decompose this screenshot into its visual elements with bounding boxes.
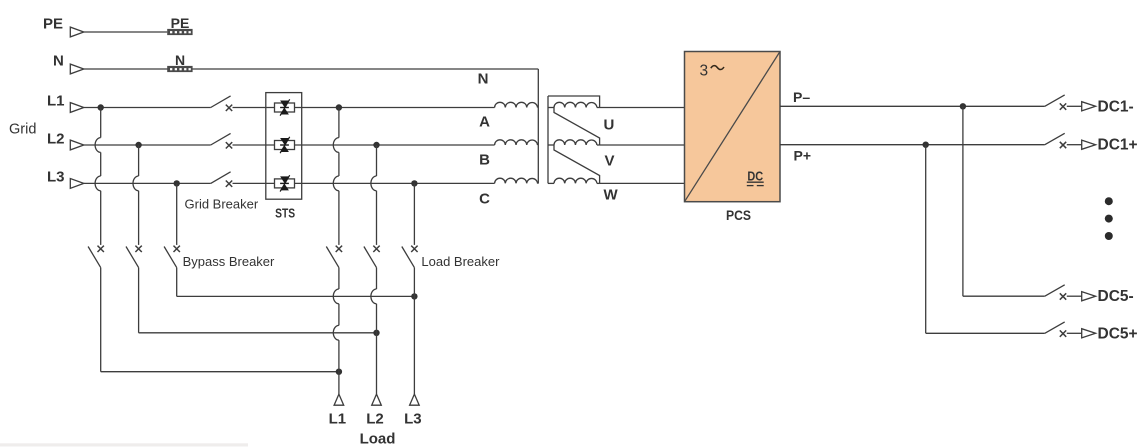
wire L2 from grid breaker to STS [233,144,275,146]
svg-text:DC5+: DC5+ [1098,325,1138,342]
svg-text:Grid Breaker: Grid Breaker [185,197,259,212]
load breaker pole 3 [402,246,418,268]
wire hop load1 over bypass run 3 [333,289,339,304]
PCS diagonal [685,52,781,202]
svg-text:P+: P+ [794,147,812,163]
wire load line 3 lower [413,268,415,395]
wire secondary bar [547,96,549,183]
wire hop load1 over B [333,138,339,153]
node P- branch [960,103,966,109]
wire secondary top link [548,96,600,108]
STS thyristor pair phase 1 [280,99,290,115]
wire hop load2 over bypass run 3 [371,289,377,304]
svg-text:DC: DC [747,168,763,183]
inductor secondary W [554,178,597,183]
bypass breaker pole 1 [88,246,104,268]
wire bypass drop from L3 [176,183,178,245]
wire hop L2-drop over L3 [133,176,139,191]
DC breaker and output DC1- [1045,95,1096,111]
input terminal triangle N [70,64,84,74]
svg-text:DC1+: DC1+ [1098,137,1138,154]
svg-text:Grid: Grid [9,122,36,138]
svg-text:L3: L3 [47,169,65,186]
DC underline solid [747,181,764,183]
wire L1 from STS to transformer coil [295,107,495,109]
wire P+ branch to DC5+ [926,332,1045,334]
wire hop L1-drop over L2 [95,138,101,153]
wire hop L1-drop over L3 [95,176,101,191]
input terminal triangle L2 [70,140,84,150]
load output triangle L2 [372,394,382,405]
svg-text:PE: PE [171,15,190,31]
wire P+ branch vertical [925,145,927,334]
inductor secondary U [554,102,597,107]
inductor primary A [495,102,538,107]
svg-text:P–: P– [793,89,810,105]
svg-text:U: U [604,116,615,133]
ellipsis dots [1105,197,1113,205]
svg-text:DC1-: DC1- [1098,98,1134,115]
load breaker pole 1 [326,246,342,268]
scan artifact bar [0,443,248,446]
wire zigzag link V-W [554,145,600,183]
wire L1 from input to grid breaker [84,107,211,109]
PCS converter box [685,52,781,202]
DC underline dashed [747,185,754,187]
load output triangle L3 [410,394,420,405]
svg-text:V: V [605,153,615,170]
node bypass-load L1 [336,369,342,375]
wire L3 from STS to transformer coil [295,182,495,184]
DC breaker and output DC1+ [1045,133,1096,149]
svg-text:PCS: PCS [726,208,751,223]
wire bypass run 1 to load L1 [101,371,339,373]
svg-text:L1: L1 [329,410,347,427]
svg-text:3: 3 [700,63,709,80]
wire bypass run 3 to load L3 [177,295,415,297]
wire bypass run 2 to load L2 [139,332,377,334]
svg-text:STS: STS [275,206,295,221]
svg-text:DC5-: DC5- [1098,288,1134,305]
wire load line 1 lower [338,268,340,289]
terminal block N [167,66,192,72]
STS thyristor module phase 2 box [275,141,295,150]
STS thyristor module phase 1 box [275,103,295,112]
svg-text:L2: L2 [47,131,65,148]
grid breaker pole L3 [211,172,233,187]
node bypass-load L3 [411,293,417,299]
svg-text:Load Breaker: Load Breaker [421,254,500,269]
STS thyristor pair phase 2 [280,137,290,153]
wire L2 from STS to transformer coil [295,144,495,146]
svg-text:Load: Load [360,431,396,447]
wire P- branch to DC5- [963,295,1045,297]
input terminal triangle PE [70,27,84,37]
svg-text:L2: L2 [366,410,384,427]
node L1 grid tap [98,104,104,110]
wire L3 from grid breaker to STS [233,182,275,184]
wire PE [84,31,167,33]
wire zigzag link U-V [554,108,600,146]
bypass breaker pole 2 [126,246,142,268]
load breaker pole 2 [364,246,380,268]
node L3 grid tap [174,180,180,186]
wire P+ [780,144,1045,146]
node L2 grid tap [135,142,141,148]
wire primary star bar [537,69,539,183]
wire U [600,107,685,109]
svg-text:C: C [479,190,490,207]
STS thyristor module phase 3 box [275,179,295,188]
DC breaker and output DC5+ [1045,322,1096,338]
terminal block PE [167,29,192,35]
wire bypass drop from L2 [138,145,140,176]
STS thyristor pair phase 3 [280,175,290,191]
grid breaker pole L2 [211,133,233,148]
wire P- branch vertical [962,106,964,296]
input terminal triangle L3 [70,179,84,189]
wire hop load2 over C [371,176,377,191]
wire load line 2 lower [376,268,378,289]
wire load line 2 [376,145,378,176]
wire W [600,182,685,184]
svg-text:L1: L1 [47,93,65,110]
wire P- [780,105,1045,107]
wire V [600,144,685,146]
wire load line 1 [338,108,340,138]
wire L3 from input to grid breaker [84,182,211,184]
node load tap A [336,104,342,110]
node load tap B [373,142,379,148]
node P+ branch [923,142,929,148]
svg-text:B: B [479,151,490,168]
svg-text:W: W [604,187,619,204]
wire hop load1 over C [333,176,339,191]
inductor primary B [495,140,538,145]
load output triangle L1 [334,394,344,405]
bypass breaker pole 3 [164,246,180,268]
wire L2 from input to grid breaker [84,144,211,146]
wire N [84,68,539,70]
svg-text:A: A [479,114,490,131]
wire bypass drop from L1 [100,108,102,138]
wire bypass drop 1 lower [100,268,102,372]
wire hop load1 over bypass run 2 [333,325,339,340]
inductor secondary V [554,140,597,145]
node load tap C [411,180,417,186]
wire L1 from grid breaker to STS [233,107,275,109]
svg-text:N: N [175,52,185,68]
wire bypass drop 3 lower [176,268,178,297]
inductor primary C [495,178,538,183]
wire load line 3 [413,183,415,245]
svg-text:N: N [478,70,489,87]
grid breaker pole L1 [211,96,233,111]
wire bypass drop 2 lower [138,268,140,333]
node bypass-load L2 [373,330,379,336]
input terminal triangle L1 [70,103,84,113]
svg-text:L3: L3 [404,410,422,427]
svg-text:N: N [53,53,64,70]
DC breaker and output DC5- [1045,285,1096,301]
svg-text:Bypass Breaker: Bypass Breaker [183,254,275,269]
STS box [266,93,302,200]
svg-text:PE: PE [43,16,63,33]
